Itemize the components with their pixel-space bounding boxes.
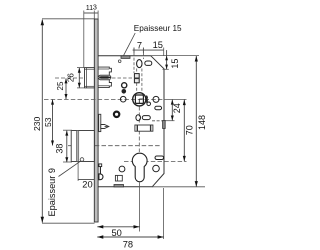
svg-text:38: 38 xyxy=(55,144,65,154)
svg-text:24: 24 xyxy=(172,103,182,113)
svg-text:3: 3 xyxy=(93,2,97,11)
svg-text:26: 26 xyxy=(66,73,75,82)
svg-text:7: 7 xyxy=(137,40,142,50)
svg-text:70: 70 xyxy=(185,125,195,135)
svg-text:15: 15 xyxy=(170,59,180,69)
svg-text:Epaisseur 9: Epaisseur 9 xyxy=(47,168,57,217)
svg-text:20: 20 xyxy=(82,179,92,189)
svg-text:148: 148 xyxy=(197,115,207,130)
svg-text:Epaisseur 15: Epaisseur 15 xyxy=(134,24,182,33)
svg-text:78: 78 xyxy=(123,239,133,249)
svg-text:50: 50 xyxy=(112,228,122,238)
svg-text:53: 53 xyxy=(43,117,53,127)
svg-text:25: 25 xyxy=(56,81,65,90)
svg-text:15: 15 xyxy=(153,40,163,50)
svg-text:230: 230 xyxy=(32,116,42,131)
